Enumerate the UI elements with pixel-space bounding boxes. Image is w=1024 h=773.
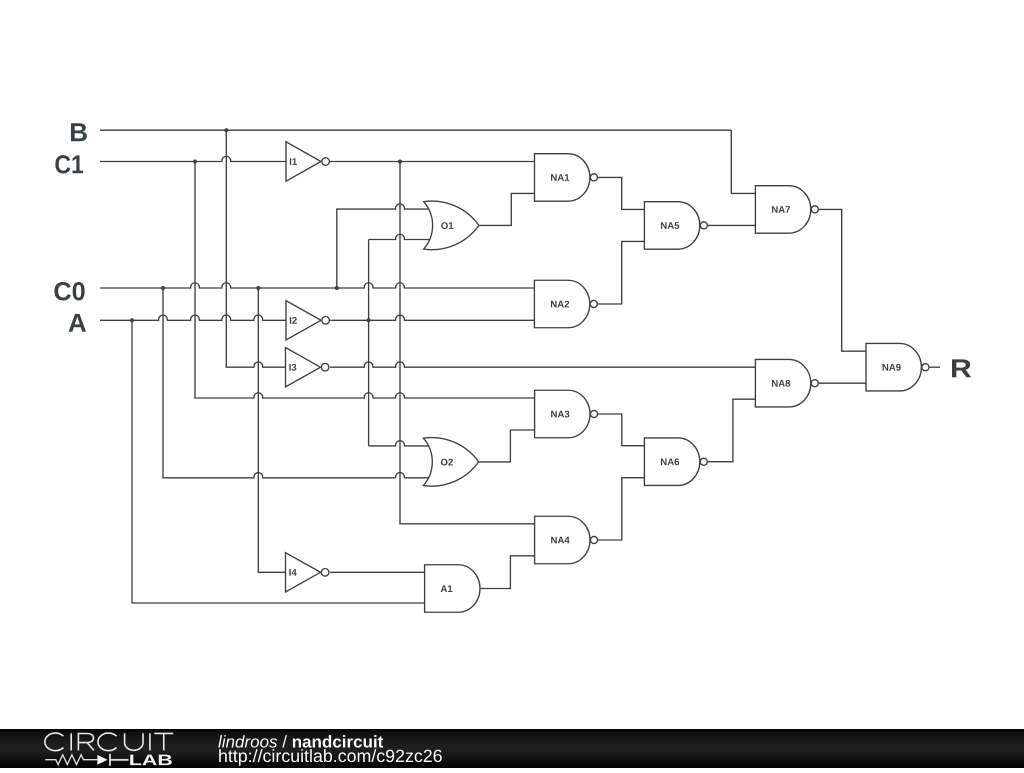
wire to O2 upper input bbox=[369, 441, 429, 446]
wire I2 output to NA2 bbox=[330, 315, 534, 320]
wire C0 tap to O2 lower input bbox=[163, 288, 429, 478]
nand gate NA1 bbox=[535, 154, 598, 202]
junction on C0 at x=258 bbox=[256, 286, 260, 290]
junction on B at x=226 bbox=[224, 128, 228, 132]
wire net C0 horizontal to NA2 bbox=[100, 283, 534, 288]
wire O2 output to NA3 lower input bbox=[479, 430, 535, 462]
node label B bbox=[71, 123, 87, 141]
wire I1 output to NA1 bbox=[330, 161, 534, 163]
wire NA8 output to NA9 lower input bbox=[819, 382, 866, 384]
footer title lindroos / nandcircuit bbox=[218, 735, 277, 747]
CircuitLab logo CIRCUIT (drawn letterforms) bbox=[45, 733, 173, 751]
CircuitLab logo LAB bbox=[130, 755, 172, 766]
wire I1 output tap to NA4 upper input bbox=[400, 162, 535, 524]
wire to O1 lower input bbox=[369, 234, 429, 239]
wire net B riser to NA7 bbox=[731, 130, 755, 193]
wire NA3 output to NA6 upper input bbox=[598, 414, 644, 446]
wire NA6 output to NA8 lower input bbox=[708, 399, 756, 462]
AND gate A1 bbox=[425, 565, 480, 613]
wire I2 output vertical (O1 lower / O2 upper) bbox=[368, 240, 370, 446]
junction on C0 at x=337 bbox=[335, 286, 339, 290]
wire NA4 output to NA6 lower input bbox=[598, 478, 644, 540]
inverter I1 bbox=[286, 142, 329, 181]
wire B tap to I3 input bbox=[226, 130, 286, 367]
wire C0 tap to O1 upper input bbox=[337, 204, 429, 288]
footer url bbox=[219, 749, 442, 766]
junction on C1 at x=195 bbox=[193, 160, 197, 164]
wire A tap to A1 lower input bbox=[132, 320, 425, 603]
wire NA7 output to NA9 upper input bbox=[819, 209, 866, 351]
node label C0 bbox=[54, 282, 84, 300]
nand gate NA2 bbox=[534, 280, 597, 328]
inverter I2 bbox=[286, 301, 329, 340]
junction on I2 output at x=369 bbox=[367, 318, 371, 322]
wire O1 output to NA1 lower input bbox=[479, 193, 534, 225]
wire NA5 output to NA7 lower input bbox=[708, 224, 756, 226]
inverter I4 bbox=[286, 553, 329, 592]
wire net A horizontal bbox=[100, 315, 286, 320]
nand gate NA4 bbox=[535, 516, 598, 564]
wire C0 tap to I4 input bbox=[258, 288, 286, 572]
junction on I1 output at x=400 bbox=[398, 160, 402, 164]
nand gate NA6 bbox=[644, 438, 707, 486]
wire NA9 output stub to R bbox=[929, 366, 940, 368]
node label A bbox=[69, 314, 86, 332]
wire NA1 output to NA5 upper input bbox=[598, 177, 645, 209]
junction on A at x=132 bbox=[130, 318, 134, 322]
node label C1 bbox=[55, 155, 83, 173]
wire C1 tap to NA3 upper input bbox=[195, 162, 535, 399]
OR gate O1 bbox=[424, 201, 479, 250]
wire NA2 output to NA5 lower input bbox=[598, 241, 645, 304]
nand gate NA8 bbox=[755, 359, 818, 407]
nand gate NA9 bbox=[866, 343, 929, 391]
wire A1 output to NA4 lower input bbox=[480, 556, 534, 589]
node label R bbox=[952, 359, 971, 377]
footer bar bbox=[0, 729, 1024, 768]
junction on C0 at x=163 bbox=[161, 286, 165, 290]
CircuitLab logo resistor-diode glyph bbox=[45, 755, 97, 765]
inverter I3 bbox=[286, 348, 329, 387]
nand gate NA5 bbox=[644, 202, 707, 250]
wire net C1 horizontal bbox=[100, 156, 286, 161]
OR gate O2 bbox=[423, 438, 478, 487]
wire I4 output to A1 bbox=[330, 571, 425, 573]
wire net B horizontal bbox=[100, 129, 731, 131]
nand gate NA7 bbox=[755, 186, 818, 234]
wire I3 output to NA8 bbox=[330, 362, 755, 367]
nand gate NA3 bbox=[535, 390, 598, 438]
